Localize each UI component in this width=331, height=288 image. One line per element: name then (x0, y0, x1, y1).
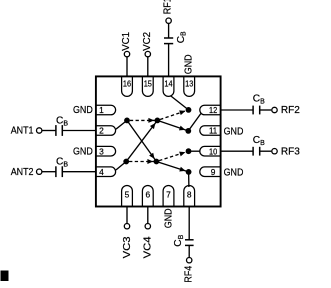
svg-text:14: 14 (164, 79, 172, 89)
svg-text:CB: CB (253, 135, 265, 147)
svg-text:CB: CB (176, 31, 188, 43)
svg-text:7: 7 (166, 190, 171, 200)
svg-text:5: 5 (125, 190, 130, 200)
svg-text:11: 11 (209, 126, 218, 136)
svg-text:4: 4 (99, 167, 104, 177)
svg-text:6: 6 (145, 190, 150, 200)
svg-text:GND: GND (73, 146, 93, 157)
svg-text:2: 2 (99, 126, 104, 136)
svg-text:GND: GND (224, 168, 244, 179)
svg-text:10: 10 (209, 146, 217, 156)
svg-text:12: 12 (209, 105, 217, 115)
svg-text:RF1: RF1 (162, 0, 173, 14)
svg-text:16: 16 (123, 79, 131, 89)
svg-text:VC2: VC2 (142, 32, 153, 51)
svg-text:GND: GND (224, 127, 244, 138)
svg-text:CB: CB (253, 94, 265, 106)
svg-text:CB: CB (173, 234, 185, 246)
svg-text:RF2: RF2 (281, 105, 300, 116)
svg-text:15: 15 (144, 79, 152, 89)
svg-text:RF4: RF4 (183, 266, 194, 283)
svg-text:3: 3 (99, 146, 104, 156)
svg-text:CB: CB (56, 116, 68, 128)
svg-text:ANT2: ANT2 (11, 167, 34, 178)
svg-text:GND: GND (73, 105, 93, 116)
svg-text:VC3: VC3 (122, 236, 133, 258)
svg-text:ANT1: ANT1 (11, 126, 34, 137)
svg-text:GND: GND (163, 208, 174, 228)
svg-text:13: 13 (185, 79, 193, 89)
svg-text:CB: CB (56, 157, 68, 169)
svg-text:VC1: VC1 (121, 32, 132, 51)
svg-text:GND: GND (184, 54, 195, 74)
svg-text:RF3: RF3 (281, 146, 300, 157)
svg-text:8: 8 (187, 190, 192, 200)
svg-text:1: 1 (99, 105, 104, 115)
svg-text:9: 9 (211, 167, 216, 177)
svg-text:VC4: VC4 (143, 236, 154, 258)
